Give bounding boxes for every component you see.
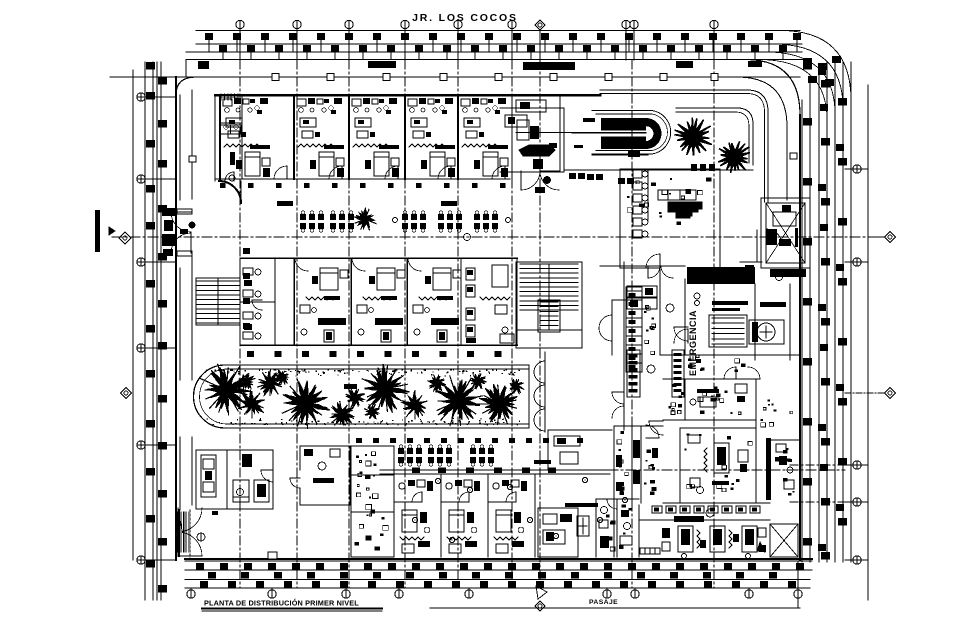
top ward shower tiles (221, 94, 238, 100)
nursery bassinet 2 (710, 526, 732, 552)
garden planter outline (194, 365, 530, 428)
right column markers (803, 62, 812, 70)
left grid bubbles (137, 93, 145, 101)
grand staircase (516, 262, 582, 348)
top column band lines (196, 30, 800, 32)
ward room (top row) (458, 96, 508, 179)
bottom corridor wall (380, 469, 610, 471)
svg-text:PASAJE: PASAJE (589, 599, 618, 606)
bottom ward extra room (538, 508, 578, 557)
surgery light room (565, 503, 598, 507)
garden palm 5b (260, 372, 280, 395)
bottom room A walls (300, 446, 350, 505)
operating room center (663, 428, 770, 503)
right wall poche (766, 438, 771, 500)
garage walls (196, 450, 273, 509)
shelf column B (672, 350, 684, 397)
svg-text:PLANTA DE DISTRIBUCIÓN PRIMER: PLANTA DE DISTRIBUCIÓN PRIMER NIVEL (204, 599, 359, 608)
garden palm 7 (437, 380, 480, 420)
ward room (top row) (349, 96, 399, 179)
court extra fixtures (735, 369, 738, 372)
triage desk (668, 202, 702, 216)
outer wall top-right corner curve (745, 60, 800, 116)
narrow rooms double wall (614, 426, 663, 557)
entrance door frame blacks (162, 208, 175, 216)
right axis diamond B (845, 392, 884, 394)
bottom room A icons (304, 449, 313, 456)
west wall tick (189, 156, 196, 162)
service elevator (761, 198, 810, 268)
second ward row outer walls (240, 257, 517, 259)
reception room walls (500, 107, 564, 109)
garden palm 5 (365, 364, 410, 413)
narrow room fixtures (619, 482, 624, 486)
triage room walls (620, 169, 720, 268)
emergencia label circle right (776, 274, 783, 281)
emergencia header bar (687, 267, 755, 284)
second row left bathrooms (240, 258, 275, 345)
shelf column A (627, 350, 640, 397)
corridor cabinet strip (624, 262, 642, 430)
ward room (second row) (294, 258, 348, 345)
triage annex label circle (647, 365, 655, 373)
bottom column markers row3 (200, 581, 208, 588)
left axis arrow A (95, 210, 100, 252)
garden palm 2 (242, 391, 263, 413)
left band horizontal ticks (110, 76, 196, 78)
hxh mark (640, 548, 660, 554)
emergencia walls (660, 268, 800, 360)
ward room (top row) (220, 96, 287, 179)
triage door (646, 254, 660, 268)
top row right room (512, 96, 560, 179)
horizontal centerline lower (500, 469, 845, 471)
garden star a (238, 375, 254, 388)
outer wall top-left corner curve (176, 77, 196, 95)
top wall door thresholds (368, 61, 396, 68)
right rooms extra fixtures (775, 457, 779, 460)
top grid bubbles (236, 20, 244, 28)
elevator lobby lines (756, 230, 758, 262)
x-room (770, 524, 798, 557)
emergencia side icons (627, 286, 657, 297)
corridor single chairs (393, 218, 398, 223)
ramp enclosure (592, 111, 671, 155)
garden star b (276, 370, 288, 384)
outer wall top veranda line (176, 76, 800, 78)
west entrance doors (177, 209, 192, 214)
gurney lift (709, 315, 747, 347)
bottom dense module walls (351, 446, 394, 557)
hall black bar (534, 460, 551, 464)
ward room (top row) (405, 96, 455, 179)
garden palm 3 (283, 381, 330, 424)
waiting seats cluster 5 (474, 214, 480, 220)
garden south marker row (356, 438, 362, 443)
operating room extra fixtures (684, 449, 686, 451)
palm tree right 1 (674, 118, 712, 156)
garden star g (511, 380, 522, 392)
garden star c (346, 390, 363, 408)
ramp small dashes (583, 118, 595, 122)
narrow room wall blacks (616, 455, 622, 467)
vertical grid centerlines (239, 60, 241, 588)
column base pair 1 (569, 173, 576, 179)
bottom diamond with arrow (536, 586, 547, 599)
bottom corridor seats 2 (428, 448, 434, 454)
corridor cabinet icons (647, 307, 651, 310)
nursery extra marks (700, 540, 706, 548)
garden star e (428, 376, 445, 393)
vestibule corridor door (219, 181, 241, 203)
right grid bubbles (853, 165, 861, 173)
consult room extra fixtures (671, 403, 675, 407)
ramp black flights with U-turn (601, 118, 646, 131)
corridor top wall (600, 265, 685, 267)
right wall tick (790, 153, 797, 159)
car (201, 455, 216, 497)
second row right ward (461, 258, 517, 345)
garden palm 1 (207, 367, 251, 412)
bottom band lines (185, 560, 812, 562)
bottom column markers row2 (208, 572, 216, 579)
sw cells extra marks (610, 521, 615, 525)
west lower entrance black jamb (178, 509, 181, 557)
corridor bench bar 2 (441, 201, 457, 206)
ramp center rail (516, 132, 572, 134)
ramp side ticks (592, 154, 648, 156)
palm tree right 2 (718, 141, 750, 173)
dimension band corner curves (780, 31, 851, 101)
corridor door arcs west (612, 392, 624, 404)
top ward lower tick markers (220, 183, 226, 188)
bottom ward room (394, 475, 433, 557)
recovery block (548, 430, 612, 470)
waiting seats cluster 4 (438, 214, 444, 220)
nursery side tables (662, 528, 670, 538)
west inner wall (191, 90, 193, 199)
left staircase (196, 278, 240, 325)
emergency court lower walls (599, 300, 760, 379)
garden palm 6 (402, 392, 425, 417)
bottom ward room (441, 475, 480, 557)
nursery row walls (639, 505, 770, 557)
east rooms fixtures (769, 423, 773, 427)
top column markers row 2 (219, 45, 227, 52)
right band vertical lines (801, 100, 803, 562)
nursery bassinet 3 (742, 526, 757, 559)
triage furniture (651, 182, 656, 186)
waiting seats cluster 3 (402, 214, 408, 220)
lobby door center marker (544, 177, 551, 184)
or corridor door arcs (649, 421, 663, 435)
emergencia court double doors (674, 327, 688, 341)
right axis diamond A (868, 236, 884, 238)
stair landing markers (243, 248, 250, 254)
garden stipple edge (206, 369, 520, 425)
corridor bench bar 1 (277, 201, 293, 206)
ne room fixtures (714, 389, 718, 392)
icon shelf row above nursery (652, 506, 760, 513)
garage fixtures (242, 454, 252, 467)
top ward row outer walls (215, 94, 600, 97)
ward room (top row) (294, 96, 344, 179)
corner blob (198, 61, 209, 69)
top column row2 ticks (222, 52, 224, 60)
garden palm 8 (479, 384, 517, 422)
sw cells walls (596, 499, 639, 557)
left band vertical lines (132, 70, 134, 560)
garage door (261, 470, 273, 482)
garden star f (471, 374, 486, 388)
top row vestibule (220, 96, 242, 181)
bottom grid bubbles (187, 590, 195, 598)
garden star d (367, 405, 379, 419)
horizontal centerline axis A (112, 236, 884, 238)
top-right corridor south wall (676, 108, 753, 165)
waiting chairs along corridor (633, 170, 648, 238)
sw cells door arcs (607, 499, 617, 509)
top column markers row 1 (205, 33, 213, 40)
hall dotted line (189, 510, 191, 559)
left axis diamond B (121, 388, 132, 399)
nursery label circle (706, 509, 714, 517)
top grid diamond marker (535, 20, 545, 30)
veranda column ticks (272, 74, 279, 81)
bottom room A desk (313, 478, 334, 483)
ward room (second row) (407, 258, 461, 345)
lobby double doors (521, 171, 540, 190)
emergencia east bar (760, 302, 786, 307)
right-side small rooms (771, 440, 800, 489)
bottom corridor wall ticks (412, 468, 420, 474)
bottom ward right wall (534, 475, 536, 557)
elevator court black blobs (745, 265, 754, 277)
nurse station cabinet (658, 190, 696, 200)
garden palm 4 (331, 403, 353, 425)
garden corridor scallop doors (534, 361, 545, 383)
triage north wall marks (691, 164, 697, 171)
reception counter (519, 145, 555, 156)
corridor planter (355, 208, 375, 228)
garden corridor wall (544, 352, 546, 432)
column base pair 3 (618, 178, 625, 184)
ambulance bay (749, 320, 784, 344)
emergencia shelf bars (712, 301, 748, 305)
outer wall bottom (185, 558, 812, 560)
top-right corridor north wall (600, 90, 768, 202)
hall marker (197, 533, 205, 541)
ward room (second row) (351, 258, 405, 345)
room number circles (435, 478, 440, 483)
waiting seats cluster 1 (300, 214, 306, 220)
west lower entrance with mat (182, 508, 202, 532)
garden bench (344, 384, 357, 389)
right band level lines (790, 464, 852, 466)
lobby black blob lower (535, 187, 545, 193)
outer wall left (175, 77, 177, 560)
left column markers (146, 62, 155, 70)
bottom column markers row1 (196, 563, 204, 570)
bottom corridor seats 1 (398, 448, 404, 454)
nurse station desk (668, 206, 698, 218)
column base pair 2 (587, 174, 594, 180)
bottom dense module fixtures (373, 494, 378, 499)
corner band squares (803, 58, 812, 65)
corridor south wall (564, 169, 753, 171)
outer wall right (799, 115, 801, 560)
svg-text:JR. LOS COCOS: JR. LOS COCOS (412, 12, 518, 24)
waiting seats cluster 2 (330, 214, 336, 220)
bottom corridor seats 3 (470, 448, 476, 454)
emergencia east wall (789, 284, 791, 360)
consult room upper-right (663, 379, 756, 503)
nursery bassinet 1 (678, 526, 700, 559)
right small arrow (757, 542, 765, 552)
second row lower markers (247, 351, 254, 357)
bottom ward room (488, 475, 527, 557)
